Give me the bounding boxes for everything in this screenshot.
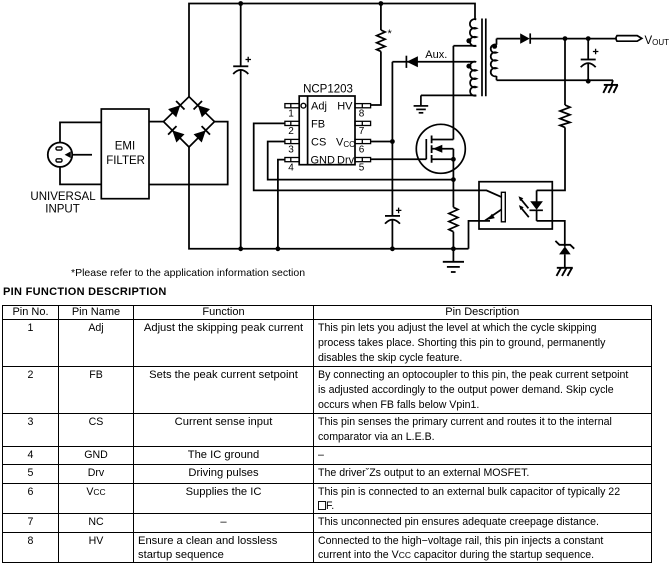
wire secondary bottom rail (497, 79, 614, 81)
svg-text:*: * (388, 28, 393, 40)
ground zener chassis (557, 268, 573, 276)
svg-text:2: 2 (288, 126, 294, 137)
bridge rectifier diamond (164, 97, 215, 147)
svg-text:4: 4 (288, 162, 294, 173)
wire pin3 CS to MOSFET source (268, 142, 454, 180)
node junction source CS (451, 177, 456, 182)
node junction bottom rail vcc cap (390, 246, 395, 251)
transformer aux winding (421, 62, 476, 96)
capacitor bulk input (233, 4, 251, 249)
ground sense (443, 262, 464, 272)
wire opto emitter to ground rail (469, 221, 480, 249)
node junction bottom rail gnd pin4 (276, 246, 281, 251)
svg-text:FB: FB (311, 118, 325, 130)
resistor HV startup (371, 4, 393, 106)
node junction vout feedback (563, 36, 568, 41)
diode output rectifier (520, 33, 615, 43)
svg-text:Adj: Adj (311, 101, 327, 113)
ground output chassis (603, 80, 618, 93)
IC U1 NCP1203 (299, 84, 355, 167)
pin function table (2, 305, 652, 563)
pin 5 stub (355, 158, 371, 174)
capacitor Vcc (385, 208, 401, 224)
pin 8 stub (355, 104, 371, 120)
diode bridge bottom-left (168, 126, 185, 143)
svg-text:EMI: EMI (115, 141, 135, 153)
svg-text:7: 7 (359, 126, 365, 137)
table title (3, 286, 167, 298)
diode bridge bottom-right (193, 126, 210, 143)
pin 6 stub (355, 139, 371, 155)
svg-text:INPUT: INPUT (45, 203, 80, 215)
node junction bottom rail cap (238, 246, 243, 251)
transformer secondary winding (491, 39, 497, 81)
wire secondary to output diode (497, 38, 521, 40)
svg-text:6: 6 (359, 144, 365, 155)
EMI filter box (101, 109, 149, 199)
pin 2 stub (285, 121, 299, 137)
wire vcc vertical (391, 62, 393, 249)
svg-text:3: 3 (288, 144, 294, 155)
resistor feedback (537, 39, 570, 191)
svg-text:VCC: VCC (336, 137, 355, 149)
svg-text:Drv: Drv (337, 155, 355, 167)
note text (71, 267, 305, 279)
MOSFET Q1 (416, 124, 465, 179)
transformer primary winding (453, 19, 476, 46)
pin 3 stub (285, 139, 299, 155)
transformer core (482, 19, 486, 97)
svg-text:GND: GND (311, 155, 336, 167)
svg-text:CS: CS (311, 137, 326, 149)
diode bridge top-right (194, 101, 211, 118)
svg-text:Aux.: Aux. (425, 49, 447, 61)
wire opto cathode to zener (537, 221, 565, 247)
plug universal input (48, 143, 92, 167)
wire pin4 GND to bottom rail (278, 160, 285, 249)
optocoupler U2 (479, 182, 552, 229)
node junction top rail cap (238, 1, 243, 6)
svg-text:FILTER: FILTER (106, 155, 145, 167)
node junction vcc (390, 139, 395, 144)
wire pin2 FB to optocoupler (254, 123, 479, 190)
diode aux (392, 49, 475, 68)
pin 7 stub (355, 121, 371, 137)
wire bridge right to EMI bottom (149, 122, 228, 185)
node junction secondary cap bottom (586, 79, 591, 84)
node junction bottom rail sense (451, 246, 456, 251)
node junction top rail resistor (379, 1, 384, 6)
svg-text:8: 8 (359, 109, 365, 120)
diode bridge top-left (168, 101, 185, 118)
pin 1 stub (285, 104, 299, 120)
diode zener (555, 241, 574, 268)
wire EMI to bridge left (149, 121, 164, 123)
wire bottom rail (189, 147, 469, 249)
svg-text:UNIVERSAL: UNIVERSAL (30, 191, 96, 203)
node junction vout cap (586, 36, 591, 41)
resistor sense (449, 180, 458, 262)
wire pin6 Vcc (371, 141, 393, 143)
wire top rail (189, 4, 475, 97)
connector Vout tag (616, 35, 669, 47)
capacitor output (581, 39, 599, 82)
svg-text:VOUT: VOUT (645, 35, 670, 47)
svg-text:5: 5 (359, 162, 365, 173)
wire pin5 Drv to gate (371, 158, 427, 160)
svg-text:HV: HV (337, 101, 353, 113)
svg-text:NCP1203: NCP1203 (303, 84, 353, 96)
wire plug to EMI bottom (60, 167, 101, 185)
svg-text:1: 1 (288, 109, 294, 120)
wire plug to EMI top (60, 122, 101, 142)
wire drain vertical (452, 46, 454, 140)
ground aux (414, 95, 429, 112)
pin 4 stub (285, 158, 299, 174)
